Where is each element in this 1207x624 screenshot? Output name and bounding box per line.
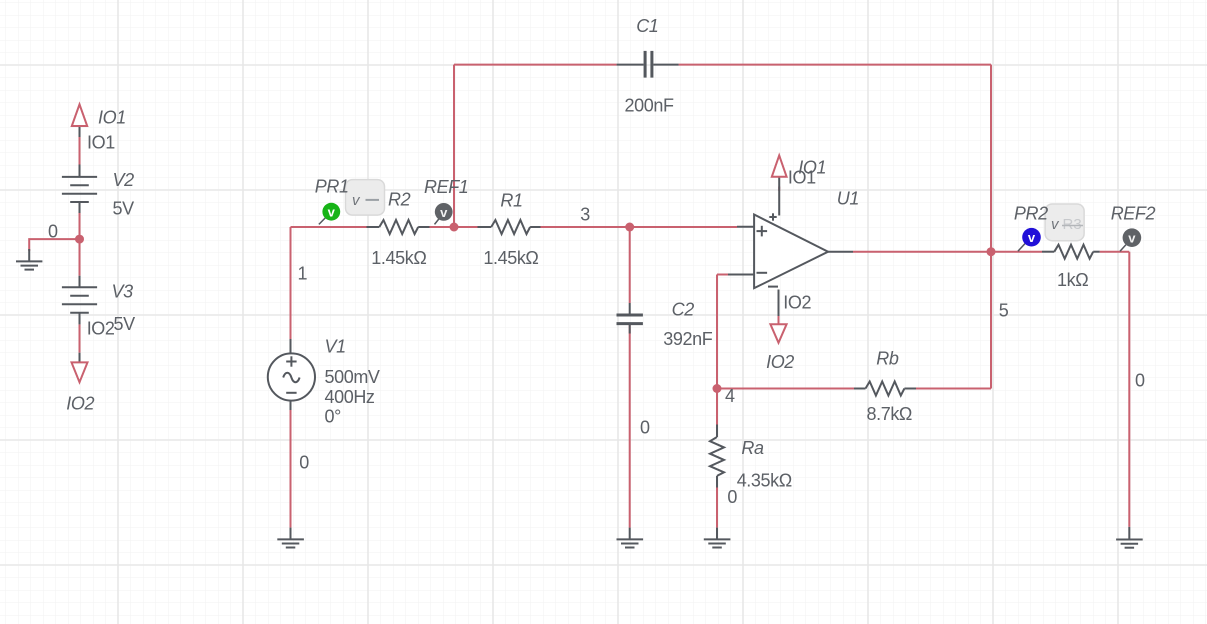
- battery V2: [62, 126, 97, 213]
- wire: Rb right lead run: [916, 388, 991, 390]
- node 5 junction: [987, 247, 996, 256]
- wire: C1 row right: [679, 64, 991, 66]
- svg-text:IO2: IO2: [66, 394, 94, 414]
- IO2 connector (left): [72, 362, 88, 382]
- svg-text:392nF: 392nF: [663, 329, 712, 349]
- capacitor C1: [617, 51, 679, 78]
- svg-text:IO2: IO2: [783, 293, 811, 313]
- svg-text:PR2: PR2: [1014, 203, 1048, 223]
- wire: V1 bottom to ground: [290, 410, 292, 528]
- svg-text:0: 0: [48, 221, 58, 241]
- node REF1 junction: [450, 223, 459, 232]
- node 4 junction: [713, 384, 722, 393]
- svg-text:3: 3: [580, 205, 590, 225]
- IO1 connector (left): [72, 104, 87, 126]
- svg-text:C2: C2: [672, 300, 695, 320]
- svg-text:8.7kΩ: 8.7kΩ: [867, 404, 912, 424]
- svg-text:5V: 5V: [113, 199, 135, 219]
- IO2 connector (op-amp): [770, 324, 786, 343]
- wire: right vertical from C1 down to output node 5: [990, 65, 992, 252]
- probe REF1: [435, 203, 453, 224]
- wire node1: main input row V1 to R2: [291, 226, 367, 228]
- svg-text:1.45kΩ: 1.45kΩ: [483, 248, 538, 268]
- svg-text:0: 0: [727, 487, 737, 507]
- wire: V1 top vertical (node 1): [290, 227, 292, 339]
- svg-text:Ra: Ra: [741, 438, 764, 458]
- svg-text:5V: 5V: [114, 314, 136, 334]
- wire: V3 to IO2: [79, 324, 81, 352]
- ground (C2): [617, 528, 644, 548]
- svg-text:1kΩ: 1kΩ: [1057, 270, 1088, 290]
- wire node3: R1 to op-amp +in: [541, 226, 738, 228]
- wire: vertical up from REF1 node to C1 row: [453, 65, 455, 227]
- source V1: [268, 339, 315, 410]
- svg-text:IO2: IO2: [87, 319, 115, 339]
- svg-text:v: v: [328, 205, 336, 220]
- svg-text:200nF: 200nF: [625, 95, 674, 115]
- svg-text:400Hz: 400Hz: [325, 387, 375, 407]
- resistor Rb: [854, 382, 916, 396]
- svg-text:V3: V3: [112, 281, 134, 301]
- wire: Ra to ground: [716, 488, 718, 528]
- svg-text:PR1: PR1: [315, 177, 349, 197]
- wire: Rb left run to node 4: [717, 388, 854, 390]
- svg-text:C1: C1: [636, 16, 658, 36]
- resistor R3: [1042, 245, 1100, 259]
- wire: C2 to ground: [629, 325, 631, 528]
- svg-text:R2: R2: [388, 190, 411, 210]
- capacitor C2: [617, 303, 643, 334]
- svg-text:REF1: REF1: [424, 177, 468, 197]
- probe PR2 button: [1045, 204, 1084, 241]
- resistor R1: [478, 220, 541, 234]
- IO connector arrows: [72, 104, 787, 382]
- svg-text:V2: V2: [113, 170, 135, 190]
- wire node5: down right side: [990, 252, 992, 389]
- svg-text:R1: R1: [500, 191, 522, 211]
- svg-text:IO1: IO1: [98, 108, 126, 128]
- wire: REF2 down to ground: [1128, 252, 1130, 527]
- node 3 junction: [625, 223, 634, 232]
- wire: node4 down to Ra: [716, 389, 718, 425]
- wire: op-amp IO1 lead red bit: [778, 187, 780, 192]
- wire: C1 row left: [454, 64, 617, 66]
- wire node REF1: R2 to R1: [430, 226, 478, 228]
- junction dots: [75, 223, 996, 394]
- svg-text:V1: V1: [325, 337, 346, 357]
- wire: IO1 to V2: [79, 137, 81, 165]
- svg-text:R3: R3: [1063, 216, 1082, 233]
- wire: V2 to V3 through node 0: [79, 213, 81, 276]
- IO1 lead stub (op-amp): [778, 323, 781, 325]
- ground (REF2): [1116, 527, 1143, 548]
- op-amp U1: [728, 177, 853, 316]
- ground (Ra): [704, 528, 731, 548]
- ground (V1): [277, 528, 304, 548]
- resistor R2: [367, 220, 430, 234]
- svg-text:REF2: REF2: [1111, 203, 1156, 223]
- wire: op-amp IO2 lead red bit: [778, 316, 780, 324]
- wire: PR2 row left: [991, 251, 1042, 253]
- probe PR1 button: [346, 180, 385, 216]
- svg-text:500mV: 500mV: [325, 367, 380, 387]
- svg-text:1: 1: [298, 263, 308, 283]
- svg-text:1.45kΩ: 1.45kΩ: [371, 248, 426, 268]
- svg-text:0: 0: [640, 418, 650, 438]
- svg-text:IO1: IO1: [788, 168, 816, 188]
- svg-text:v: v: [1028, 230, 1036, 245]
- svg-text:5: 5: [999, 300, 1009, 320]
- node 0 junction: [75, 235, 84, 244]
- wire: PR2 row right: [1100, 251, 1130, 253]
- wire: node 0 to left ground: [29, 239, 79, 251]
- resistor Ra: [710, 425, 724, 488]
- svg-text:U1: U1: [837, 189, 859, 209]
- svg-text:0: 0: [299, 453, 309, 473]
- wire: op-amp output to node 5: [853, 251, 991, 253]
- svg-text:IO1: IO1: [87, 133, 115, 153]
- wire: node4 up to -in: [716, 275, 718, 389]
- probe PR2: [1018, 228, 1041, 251]
- svg-text:0°: 0°: [325, 406, 342, 426]
- svg-text:Rb: Rb: [876, 348, 899, 368]
- svg-text:v: v: [1128, 231, 1136, 246]
- svg-text:0: 0: [1135, 370, 1145, 390]
- ground (node 0 left): [16, 249, 42, 270]
- battery V3: [62, 276, 97, 363]
- svg-text:v: v: [440, 205, 448, 220]
- wire node3 down to C2: [629, 227, 631, 303]
- svg-text:4: 4: [725, 386, 735, 406]
- probe PR1: [319, 203, 340, 225]
- svg-text:IO2: IO2: [766, 352, 794, 372]
- IO1 connector (op-amp): [772, 155, 787, 176]
- probe REF2: [1120, 228, 1141, 251]
- svg-text:4.35kΩ: 4.35kΩ: [737, 471, 792, 491]
